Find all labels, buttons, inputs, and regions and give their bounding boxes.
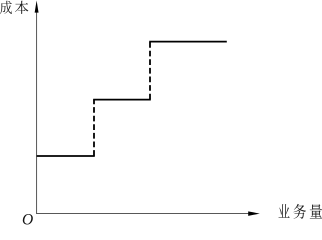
step level 3 line	[149, 41, 227, 43]
y-axis label char 本	[15, 1, 28, 14]
step level 1 line	[37, 155, 95, 157]
y-axis label char 成	[0, 1, 12, 14]
x axis arrowhead	[248, 211, 260, 216]
step level 2 line	[93, 99, 151, 101]
dashed riser 2	[149, 41, 151, 99]
x axis line	[36, 213, 249, 215]
x-axis label char 务	[293, 204, 306, 219]
dashed riser 1	[93, 99, 95, 156]
y axis arrowhead	[35, 1, 39, 13]
svg-text:O: O	[22, 212, 33, 225]
x-axis label char 量	[310, 204, 322, 218]
x-axis label char 业	[279, 204, 290, 218]
y axis line	[36, 11, 38, 214]
